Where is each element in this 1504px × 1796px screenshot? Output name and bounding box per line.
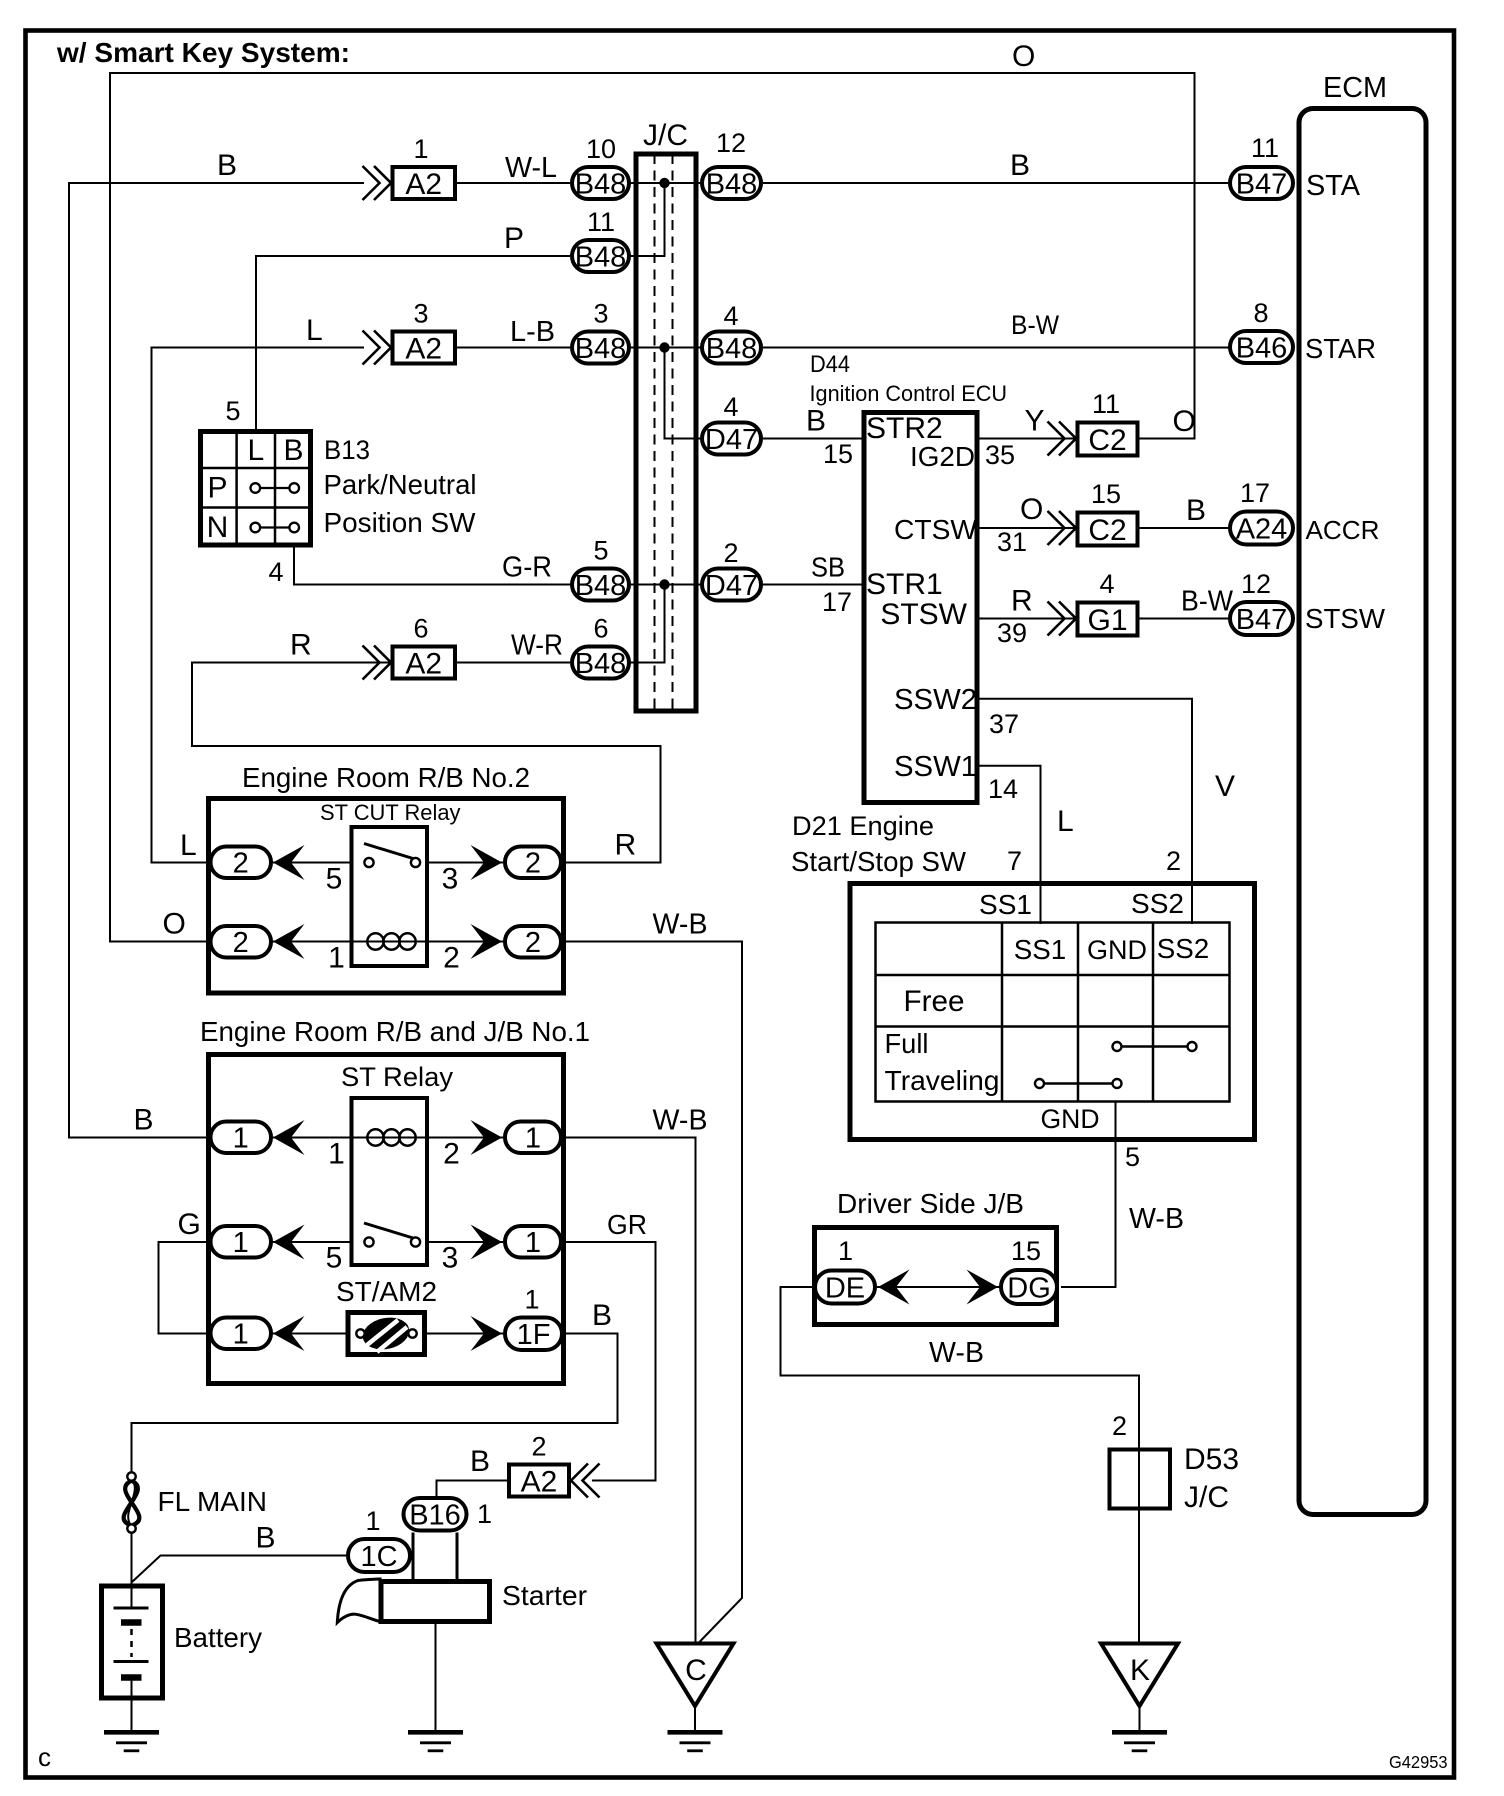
svg-text:37: 37 [989, 709, 1019, 739]
svg-text:W-B: W-B [929, 1337, 984, 1369]
svg-text:5: 5 [1125, 1142, 1140, 1172]
svg-text:L: L [1057, 805, 1074, 838]
ground (battery) [104, 1732, 159, 1751]
connector A2 pin 3 [363, 299, 456, 366]
svg-text:L: L [247, 434, 264, 467]
svg-text:B: B [134, 1104, 154, 1137]
svg-text:IG2D: IG2D [910, 441, 975, 472]
svg-text:4: 4 [268, 557, 283, 587]
svg-text:R: R [1011, 585, 1033, 618]
wire into fuse [273, 1333, 350, 1335]
svg-text:2: 2 [525, 848, 541, 880]
svg-text:14: 14 [988, 774, 1018, 804]
wire out of fuse [424, 1333, 503, 1335]
J/C internal jog row3-row4 [665, 348, 703, 439]
wire O into relay coil [273, 941, 353, 943]
connector DE pin 1 [815, 1271, 875, 1305]
engine room R/B No.2 box [209, 799, 564, 994]
svg-text:G: G [178, 1208, 201, 1241]
ground (K) [1112, 1732, 1167, 1751]
connector oval 1 (fuse row left) [211, 1318, 272, 1351]
svg-text:Traveling: Traveling [885, 1065, 1000, 1096]
svg-text:Park/Neutral: Park/Neutral [324, 469, 477, 500]
svg-text:Y: Y [1025, 405, 1045, 438]
svg-text:GR: GR [607, 1209, 647, 1240]
svg-text:4: 4 [723, 301, 738, 331]
wire W-B (DE to ground K) [781, 1287, 1140, 1642]
svg-text:Full: Full [885, 1028, 929, 1059]
svg-text:1: 1 [413, 134, 428, 164]
wire B-W to ECM STAR [763, 347, 1230, 349]
fuse ST/AM2 [348, 1313, 425, 1355]
connector A2 pin 1 [363, 134, 456, 201]
svg-text:B13: B13 [324, 435, 370, 465]
svg-text:SS2: SS2 [1131, 888, 1184, 919]
chevron left [273, 1120, 305, 1155]
connector oval 2 (ST CUT pin 2 side) [505, 926, 561, 959]
connector oval 1 (ST relay pin 1 side) [211, 1122, 272, 1155]
wire into relay pin 5 [273, 1241, 353, 1243]
svg-text:B: B [1010, 149, 1030, 182]
svg-text:c: c [38, 1742, 51, 1772]
junction dot [659, 342, 669, 352]
svg-text:6: 6 [593, 614, 608, 644]
chevron right [967, 1270, 999, 1305]
svg-text:STSW: STSW [880, 598, 967, 631]
wire R net (ST CUT relay to A2-6) [192, 663, 661, 863]
svg-text:w/ Smart Key System:: w/ Smart Key System: [56, 37, 350, 68]
connector 1C pin 1 [348, 1506, 410, 1573]
svg-text:A2: A2 [405, 647, 442, 680]
connector oval 2 (ST CUT pin 5 side) [211, 847, 272, 880]
svg-text:2: 2 [1112, 1411, 1127, 1441]
ground connector K [1101, 1644, 1178, 1707]
svg-text:A2: A2 [405, 168, 442, 201]
svg-text:A2: A2 [405, 332, 442, 365]
wire FL MAIN to battery [131, 1533, 133, 1589]
engine room R/B and J/B No.1 box [209, 1055, 564, 1384]
svg-text:2: 2 [233, 927, 249, 959]
svg-text:P: P [504, 222, 524, 255]
chevron left [273, 924, 305, 959]
svg-text:B: B [1186, 494, 1206, 527]
svg-text:Driver Side J/B: Driver Side J/B [837, 1188, 1024, 1219]
svg-text:6: 6 [413, 614, 428, 644]
svg-text:4: 4 [1099, 569, 1114, 599]
svg-text:CTSW: CTSW [894, 514, 978, 545]
svg-text:1: 1 [233, 1123, 249, 1155]
svg-text:12: 12 [1241, 569, 1271, 599]
svg-text:W-B: W-B [1129, 1203, 1184, 1235]
junction connector J/C [636, 119, 696, 711]
connector D47 pin 2 [702, 538, 761, 602]
svg-text:5: 5 [225, 396, 240, 426]
svg-text:W-B: W-B [653, 909, 708, 941]
chevron right [471, 924, 503, 959]
chevron left [878, 1270, 910, 1305]
wire SB [763, 584, 864, 586]
connector G1 pin 4 [1048, 569, 1138, 637]
svg-text:ECM: ECM [1323, 72, 1387, 104]
svg-text:K: K [1130, 1654, 1150, 1687]
svg-text:11: 11 [587, 207, 615, 237]
fusible link FL MAIN [124, 1472, 140, 1532]
svg-text:2: 2 [443, 1138, 460, 1171]
svg-text:B: B [217, 149, 237, 182]
svg-text:3: 3 [442, 1242, 459, 1275]
svg-text:D53: D53 [1184, 1443, 1239, 1476]
svg-text:15: 15 [823, 439, 853, 469]
contact full (GND-SS2) [1113, 1042, 1197, 1051]
ST CUT relay switch [364, 844, 420, 868]
wire G-R net [294, 546, 570, 585]
svg-text:2: 2 [443, 942, 460, 975]
connector B47 pin 11 STA [1230, 133, 1293, 200]
svg-text:A2: A2 [521, 1465, 558, 1498]
chevron left [273, 1316, 305, 1351]
wire G (loop to fuse row) [159, 1242, 211, 1334]
wire B (C2 to A24) [1140, 527, 1231, 529]
connector oval 1 (ST relay pin 5 side) [211, 1226, 272, 1259]
wire L net (A2-3 to ST CUT relay) [152, 348, 365, 863]
svg-text:D44: D44 [810, 351, 850, 378]
svg-text:C: C [685, 1654, 707, 1687]
svg-text:D47: D47 [705, 424, 758, 456]
svg-text:W-R: W-R [511, 630, 563, 662]
svg-text:C2: C2 [1088, 514, 1126, 547]
wire out of relay pin 2 [426, 941, 503, 943]
wire into relay pin 5 [273, 862, 353, 864]
svg-text:2: 2 [531, 1432, 546, 1462]
svg-text:31: 31 [997, 527, 1027, 557]
svg-text:17: 17 [822, 587, 852, 617]
svg-text:ACCR: ACCR [1306, 515, 1380, 545]
ECM box [1299, 109, 1426, 1515]
connector B48 pin 3 [572, 299, 629, 365]
svg-text:GND: GND [1041, 1104, 1100, 1134]
svg-text:3: 3 [413, 299, 428, 329]
wire out of relay pin 2 [426, 1137, 503, 1139]
svg-text:1F: 1F [517, 1319, 551, 1351]
connector C2 pin 11 [1048, 389, 1138, 457]
wire O net (IG2D output to ST CUT relay coil) [110, 73, 1195, 942]
svg-text:L-B: L-B [510, 316, 555, 348]
svg-text:FL MAIN: FL MAIN [158, 1486, 268, 1517]
svg-text:2: 2 [525, 927, 541, 959]
wire B-W (G1 to B47) [1140, 618, 1231, 620]
svg-text:B-W: B-W [1011, 310, 1059, 340]
svg-text:R: R [615, 829, 637, 862]
svg-text:1: 1 [233, 1227, 249, 1259]
svg-text:B48: B48 [575, 333, 627, 365]
connector oval 1 (ST relay pin 2 side) [505, 1122, 561, 1155]
wire B to STR2 [763, 438, 864, 440]
svg-text:B48: B48 [706, 333, 758, 365]
connector A2 pin 6 [363, 614, 456, 681]
contact traveling (SS1-GND) [1035, 1079, 1122, 1088]
svg-text:B: B [806, 405, 826, 438]
chevron right [471, 1225, 503, 1260]
svg-text:1: 1 [328, 942, 345, 975]
connector oval 2 (ST CUT pin 3 side) [505, 847, 561, 880]
driver side J/B box [815, 1228, 1057, 1325]
svg-text:P: P [207, 472, 227, 505]
engine start/stop switch D21 box [850, 884, 1255, 1140]
wire L (SSW1 to SS1) [977, 766, 1041, 924]
svg-text:STAR: STAR [1305, 333, 1376, 364]
connector B46 pin 8 STAR [1230, 298, 1293, 364]
ignition control ECU D44 box [864, 413, 977, 803]
chevron right [471, 1316, 503, 1351]
svg-text:W-L: W-L [505, 152, 557, 184]
svg-text:D21 Engine: D21 Engine [792, 811, 934, 841]
svg-text:Start/Stop SW: Start/Stop SW [791, 846, 967, 877]
svg-text:N: N [207, 511, 229, 544]
svg-text:SSW1: SSW1 [894, 751, 977, 783]
connector D47 pin 4 [702, 392, 761, 456]
ST relay coil [353, 1129, 426, 1145]
wire row3 through J/C [629, 347, 702, 349]
svg-text:Starter: Starter [502, 1580, 587, 1611]
svg-text:J/C: J/C [1184, 1481, 1229, 1514]
svg-text:B: B [592, 1299, 612, 1332]
svg-text:B-W: B-W [1181, 586, 1234, 618]
wire P net [256, 256, 570, 431]
svg-text:15: 15 [1011, 1236, 1041, 1266]
svg-text:1: 1 [525, 1227, 541, 1259]
svg-text:B48: B48 [706, 168, 758, 200]
wire B net (battery feed: A2-1 and ST Relay) [69, 183, 364, 1138]
svg-text:SS1: SS1 [979, 889, 1032, 920]
svg-text:5: 5 [593, 536, 608, 566]
svg-text:O: O [1012, 40, 1035, 73]
svg-text:ST Relay: ST Relay [341, 1062, 454, 1092]
svg-text:1: 1 [477, 1499, 492, 1529]
svg-text:STSW: STSW [1305, 603, 1386, 634]
svg-text:11: 11 [1251, 133, 1279, 163]
svg-text:O: O [1020, 493, 1043, 526]
svg-text:O: O [163, 908, 186, 941]
svg-text:ST CUT Relay: ST CUT Relay [320, 800, 461, 825]
svg-text:B: B [256, 1522, 276, 1555]
svg-text:B16: B16 [409, 1500, 461, 1532]
svg-text:B48: B48 [575, 648, 627, 680]
svg-text:D47: D47 [705, 570, 758, 602]
svg-text:G42953: G42953 [1389, 1752, 1448, 1772]
svg-text:B47: B47 [1236, 168, 1288, 200]
wire DE-DG [877, 1286, 1000, 1288]
junction dot [659, 579, 669, 589]
J/C internal jog row5-row6 [629, 585, 665, 663]
svg-text:1: 1 [524, 1285, 539, 1315]
connector A24 pin 17 ACCR [1230, 478, 1293, 545]
svg-text:ST/AM2: ST/AM2 [336, 1276, 437, 1307]
ground (C) [668, 1732, 723, 1751]
svg-text:B47: B47 [1236, 604, 1288, 636]
wire W-L [457, 182, 570, 184]
wire K to ground [1139, 1706, 1141, 1731]
wire W-R [457, 662, 570, 664]
wire O (CTSW to C2-15) [977, 527, 1077, 529]
svg-text:2: 2 [233, 848, 249, 880]
wire out of relay pin 3 [426, 862, 503, 864]
connector DG pin 15 [1001, 1270, 1057, 1304]
svg-text:1: 1 [328, 1138, 345, 1171]
wire row5 through J/C [629, 584, 702, 586]
wire W-B (ST relay to ground C) [563, 1138, 696, 1643]
starter [337, 1533, 489, 1623]
connector B47 pin 12 STSW [1230, 569, 1293, 636]
svg-text:STA: STA [1306, 170, 1361, 202]
svg-text:B48: B48 [575, 570, 627, 602]
wire W-B (ST CUT to ground C) [563, 942, 742, 1644]
ST relay box [352, 1098, 428, 1265]
svg-text:SS2: SS2 [1157, 933, 1210, 964]
svg-text:1: 1 [838, 1236, 853, 1266]
junction dot [659, 178, 669, 188]
svg-text:SB: SB [811, 552, 845, 583]
junction connector D53 [1110, 1450, 1171, 1509]
svg-text:5: 5 [326, 863, 343, 896]
svg-text:8: 8 [1253, 298, 1268, 328]
connector B48 pin 10 [572, 134, 629, 200]
svg-text:39: 39 [997, 618, 1027, 648]
svg-text:SS1: SS1 [1014, 934, 1067, 965]
wire B (1F to FL MAIN) [132, 1334, 618, 1474]
connector oval 1 (ST relay pin 3 side) [505, 1226, 561, 1259]
svg-text:17: 17 [1240, 478, 1270, 508]
svg-text:R: R [290, 629, 312, 662]
chevron right [471, 1120, 503, 1155]
svg-text:B48: B48 [575, 168, 627, 200]
wire V (SSW2 to SS2) [977, 699, 1192, 924]
battery [102, 1586, 163, 1730]
park/neutral position switch B13 [201, 431, 311, 545]
ST relay switch [364, 1223, 420, 1247]
svg-text:L: L [180, 829, 197, 862]
connector B48 pin 11 [572, 207, 629, 273]
svg-text:2: 2 [723, 538, 738, 568]
wire R (STSW to G1) [977, 618, 1077, 620]
connector A2 pin 2 [509, 1432, 600, 1499]
ground (starter) [408, 1732, 463, 1751]
svg-text:STR1: STR1 [866, 568, 943, 601]
svg-text:A24: A24 [1236, 513, 1288, 545]
chevron left [273, 1225, 305, 1260]
svg-text:SSW2: SSW2 [894, 684, 977, 716]
svg-text:L: L [306, 314, 323, 347]
svg-text:B: B [283, 434, 303, 467]
svg-text:12: 12 [716, 128, 746, 158]
svg-text:Battery: Battery [174, 1622, 262, 1653]
svg-text:Position SW: Position SW [324, 507, 477, 538]
ST CUT relay coil [353, 933, 426, 949]
svg-text:B: B [470, 1445, 490, 1478]
svg-text:4: 4 [723, 392, 738, 422]
svg-text:GND: GND [1087, 935, 1147, 965]
svg-text:Free: Free [904, 985, 965, 1018]
wire L-B [457, 347, 570, 349]
svg-text:1C: 1C [360, 1541, 397, 1573]
connector B48 pin 5 [572, 536, 629, 602]
wire row1 through J/C [629, 182, 702, 184]
svg-text:C2: C2 [1088, 424, 1126, 457]
svg-text:7: 7 [1007, 846, 1022, 876]
svg-text:J/C: J/C [643, 119, 688, 152]
svg-text:Engine Room R/B and J/B No.1: Engine Room R/B and J/B No.1 [200, 1016, 590, 1047]
svg-text:3: 3 [442, 863, 459, 896]
wire Y (IG2D to C2-11) [977, 438, 1077, 440]
connector B16 pin 1 [404, 1498, 493, 1532]
J/C internal jog row1-row2 [629, 183, 665, 256]
wire starter to ground [435, 1622, 437, 1731]
svg-text:DG: DG [1007, 1272, 1051, 1304]
svg-text:1: 1 [365, 1506, 380, 1536]
wire C to ground [694, 1706, 696, 1731]
connector C2 pin 15 [1048, 479, 1138, 547]
chevron right [471, 845, 503, 880]
wire GR (to A2-2) [563, 1242, 656, 1481]
wire GND to driver side J/B [1061, 1102, 1116, 1288]
svg-text:5: 5 [326, 1242, 343, 1275]
svg-text:11: 11 [1092, 389, 1120, 419]
chevron left [273, 845, 305, 880]
svg-text:3: 3 [593, 299, 608, 329]
svg-text:V: V [1215, 770, 1235, 803]
wire GR continues to chevron [592, 1480, 656, 1482]
connector B48 pin 4 [702, 301, 761, 365]
wire B (B16 to A2-2) [437, 1481, 510, 1498]
connector B48 pin 6 [572, 614, 629, 680]
svg-text:1: 1 [233, 1319, 249, 1351]
ST CUT relay box [352, 827, 428, 966]
D21 contact table [876, 923, 1230, 1102]
wire B to ECM STA [763, 182, 1230, 184]
svg-text:G1: G1 [1087, 604, 1127, 637]
svg-text:1: 1 [525, 1123, 541, 1155]
svg-text:15: 15 [1091, 479, 1121, 509]
svg-text:G-R: G-R [502, 552, 552, 584]
svg-text:DE: DE [825, 1272, 865, 1304]
wire B (battery to 1C) [132, 1556, 346, 1583]
svg-text:B48: B48 [575, 241, 627, 273]
connector oval 2 (ST CUT pin 1 side) [211, 926, 272, 959]
svg-text:Ignition Control ECU: Ignition Control ECU [810, 381, 1008, 406]
svg-text:O: O [1173, 405, 1196, 438]
svg-text:W-B: W-B [653, 1105, 708, 1137]
wire B into relay coil [273, 1137, 353, 1139]
svg-text:B46: B46 [1236, 332, 1288, 364]
svg-text:10: 10 [586, 134, 616, 164]
svg-text:35: 35 [985, 440, 1015, 470]
svg-text:Engine Room R/B No.2: Engine Room R/B No.2 [242, 762, 530, 793]
connector B48 pin 12 [702, 128, 761, 200]
connector 1F pin 1 [505, 1285, 562, 1352]
svg-text:2: 2 [1166, 846, 1181, 876]
wire out of relay pin 3 [426, 1241, 503, 1243]
ground connector C [657, 1644, 734, 1707]
